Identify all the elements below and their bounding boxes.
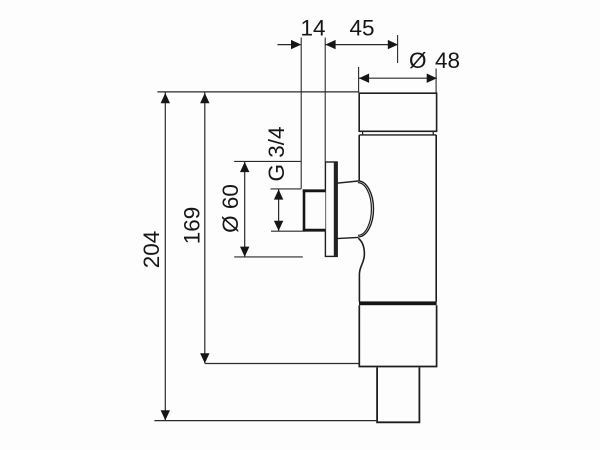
dimension 14 line with arrow bbox=[278, 40, 302, 49]
svg-text:Ø: Ø bbox=[409, 48, 427, 73]
bell connector outer curve bbox=[358, 181, 373, 237]
label 14 bbox=[300, 16, 325, 41]
svg-text:169: 169 bbox=[180, 207, 205, 245]
label 204 rotated bbox=[139, 231, 164, 269]
dimension 45 line with arrows bbox=[325, 40, 398, 49]
wall flange plate bbox=[325, 162, 337, 256]
extension tick at y=161.4 bbox=[234, 160, 301, 162]
bell connector inner curve bbox=[358, 183, 372, 236]
valve lower body bbox=[359, 305, 436, 366]
label 169 rotated bbox=[180, 207, 205, 245]
extension line at x=358.6 bbox=[358, 67, 360, 93]
thick joint bar bbox=[359, 301, 437, 305]
bell connector top edge bbox=[337, 181, 358, 183]
dimension G3/4 vertical line with arrows bbox=[274, 189, 283, 231]
dimension 169 vertical line with arrows bbox=[200, 93, 209, 364]
extension line at x=301 bbox=[300, 38, 302, 189]
label diameter 60 rotated bbox=[218, 184, 243, 233]
bell connector bottom edge bbox=[337, 237, 358, 238]
extension tick at y=256.9 bbox=[234, 256, 303, 258]
extension line at x=436.1 bbox=[435, 69, 437, 93]
svg-text:204: 204 bbox=[139, 231, 164, 269]
dimension 204 vertical line with arrows bbox=[161, 93, 170, 421]
svg-text:14: 14 bbox=[300, 16, 325, 41]
outlet pipe bbox=[377, 367, 419, 422]
label diameter 48 bbox=[409, 48, 460, 73]
reference line at y=363.5 bbox=[205, 363, 359, 365]
svg-text:G 3/4: G 3/4 bbox=[264, 126, 289, 181]
dimension diameter 48 line with arrows bbox=[359, 74, 437, 83]
extension line at x=325 bbox=[324, 38, 326, 162]
svg-text:Ø 60: Ø 60 bbox=[218, 184, 243, 233]
valve top cap bbox=[359, 93, 436, 131]
svg-text:45: 45 bbox=[349, 16, 374, 41]
groove between cap and body bbox=[359, 131, 436, 135]
label G 3/4 rotated bbox=[264, 126, 289, 181]
valve upper body bbox=[358, 135, 436, 302]
label 45 bbox=[349, 16, 374, 41]
connection nut G3/4 bbox=[303, 189, 326, 231]
extension line at x=397.6 bbox=[397, 35, 399, 63]
horizontal reference line top bbox=[157, 91, 359, 93]
reference line at y=420.6 bbox=[154, 420, 377, 422]
extension tick at y=231.2 bbox=[271, 230, 303, 232]
dimension diameter 60 vertical line with arrows bbox=[240, 162, 249, 257]
svg-text:48: 48 bbox=[435, 48, 460, 73]
extension tick at y=188.9 bbox=[271, 188, 302, 190]
